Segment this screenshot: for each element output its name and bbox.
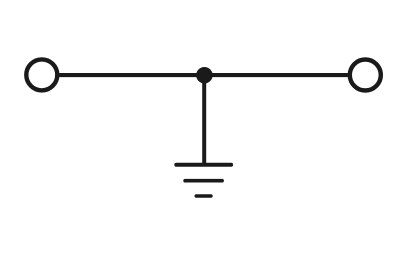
wire: junction to right terminal [204, 73, 348, 77]
wire: left terminal to junction [59, 73, 204, 77]
ground bar 1 (top, widest) [176, 163, 231, 167]
wire: junction down to ground [202, 75, 206, 165]
ground bar 3 (bottom, shortest) [196, 194, 211, 198]
ground bar 2 (middle) [185, 179, 222, 183]
terminal circle right [350, 60, 381, 91]
terminal circle left [26, 59, 57, 90]
junction dot (node) [196, 67, 213, 84]
